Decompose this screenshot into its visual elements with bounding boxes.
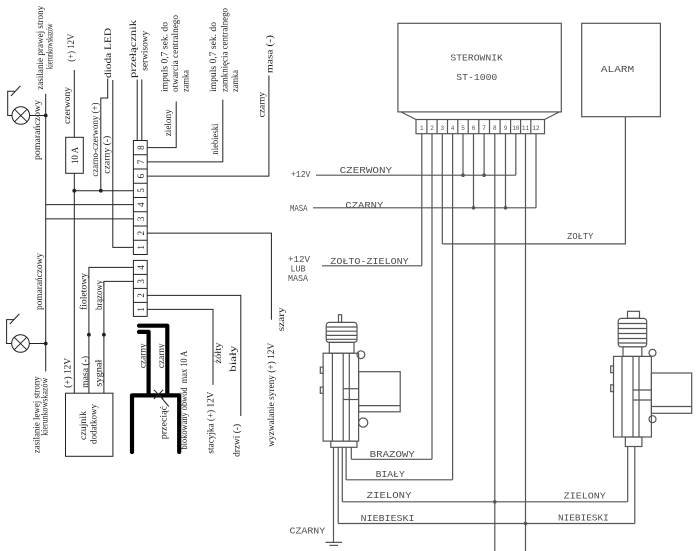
wire pin 2 szary <box>147 233 271 320</box>
wire +12V czerwony bus <box>316 174 516 176</box>
wire double cable to service switch <box>136 80 138 141</box>
wire LED czarny (-) to pin 1 block X1 <box>113 80 134 247</box>
node pin9 junction dot <box>504 206 508 210</box>
actuator M1 body <box>323 353 359 441</box>
svg-text:MASA: MASA <box>290 204 308 214</box>
svg-text:zamka: zamka <box>231 69 241 92</box>
wire pin 3 vertical <box>441 134 443 244</box>
svg-text:ZIELONY: ZIELONY <box>367 491 413 501</box>
wire niebieski actuator lead <box>337 447 339 523</box>
node A junction dot <box>44 114 48 118</box>
svg-text:12: 12 <box>532 125 540 132</box>
svg-text:impuls 0,7 sek. do: impuls 0,7 sek. do <box>161 22 171 92</box>
svg-text:MASA: MASA <box>288 274 309 284</box>
svg-text:2: 2 <box>430 125 434 132</box>
wire pin 12 vertical <box>535 134 537 208</box>
wire zielony bus M1 to M2 <box>342 501 627 503</box>
wire niebieski bus M1 to M2 <box>338 523 635 525</box>
svg-text:10: 10 <box>512 125 520 132</box>
wire zolto-zielony pin 1 <box>322 265 422 267</box>
svg-text:żółty: żółty <box>214 342 224 363</box>
actuator M2 motor block <box>651 373 691 413</box>
actuator M2 neck <box>623 347 642 357</box>
svg-text:drzwi (-): drzwi (-) <box>232 424 243 457</box>
svg-text:6: 6 <box>472 125 476 132</box>
svg-text:NIEBIESKI: NIEBIESKI <box>361 514 415 524</box>
wire pin 8 vertical <box>494 134 496 551</box>
actuator M2 bottom connector <box>625 437 642 447</box>
wire pin 7 vertical <box>483 134 485 176</box>
svg-text:STEROWNIK: STEROWNIK <box>450 53 503 64</box>
wire pin 11 vertical <box>525 134 527 551</box>
svg-text:czerwony: czerwony <box>63 87 73 124</box>
wire pin 1 X2 zolty <box>147 309 213 385</box>
connector strip X3 12-pin <box>416 120 545 134</box>
svg-text:CZERWONY: CZERWONY <box>340 166 393 176</box>
wire strip left joint <box>401 112 416 120</box>
svg-text:5: 5 <box>461 125 465 132</box>
svg-text:3: 3 <box>136 279 146 284</box>
svg-text:fioletowy: fioletowy <box>79 273 90 310</box>
wire pin 6 vertical <box>473 134 475 208</box>
svg-text:3: 3 <box>440 125 444 132</box>
svg-text:czarny (-): czarny (-) <box>102 136 113 174</box>
wire node D down to label <box>45 344 47 372</box>
wire zielony up to actuator M2 <box>627 447 629 502</box>
svg-text:+12V: +12V <box>291 170 311 180</box>
wire pin 4 to pomaranczowy <box>46 204 134 206</box>
node pin8 zielony junction dot <box>493 500 497 504</box>
actuator M2 right door lock <box>611 311 692 446</box>
node F junction dot brazowy <box>102 333 106 337</box>
wire pin 3 X2 brazowy to czujnik sygnal <box>104 281 133 393</box>
svg-text:1: 1 <box>420 125 424 132</box>
node B junction dot <box>72 189 76 193</box>
svg-text:CZARNY: CZARNY <box>345 201 384 211</box>
actuator M1 top tab circle <box>357 351 365 359</box>
svg-text:impuls 0,7 sek. do: impuls 0,7 sek. do <box>209 22 219 92</box>
wire pin 8 zielony <box>147 102 176 148</box>
svg-text:ST-1000: ST-1000 <box>456 72 497 83</box>
svg-text:6: 6 <box>136 173 146 178</box>
wire +12V czerwony down to fuse <box>73 70 75 137</box>
svg-text:masa (-): masa (-) <box>80 356 91 388</box>
wire niebieski up to actuator M2 <box>634 447 636 524</box>
svg-text:szary: szary <box>277 307 287 331</box>
wire brazowy actuator lead <box>350 447 352 459</box>
svg-text:przeciąć: przeciąć <box>160 406 170 439</box>
svg-text:ZIELONY: ZIELONY <box>564 491 607 501</box>
wire pin 9 vertical <box>505 134 507 208</box>
actuator M1 motor block <box>359 372 401 412</box>
svg-text:zamka: zamka <box>182 69 192 92</box>
wire fuse to node B <box>73 173 75 190</box>
node pin7 junction dot <box>482 173 486 177</box>
actuator M1 top pin <box>339 315 342 323</box>
wire pin 2 vertical <box>431 134 433 460</box>
svg-text:pomarańczowy: pomarańczowy <box>35 253 45 310</box>
svg-text:otwarcia centralnego: otwarcia centralnego <box>171 15 181 92</box>
actuator M2 ribbed cap <box>618 318 647 347</box>
svg-text:+12V: +12V <box>288 255 311 265</box>
cut mark X przeciac <box>154 390 169 407</box>
svg-text:czarny: czarny <box>258 92 268 118</box>
pin numbers block X1 <box>136 145 146 250</box>
wire masa czarny bus <box>313 207 536 209</box>
svg-text:9: 9 <box>504 125 508 132</box>
wire pin 5 vertical <box>462 134 464 176</box>
wire pin 10 vertical <box>515 134 517 176</box>
wire brazowy pin 2 to actuator M1 <box>351 458 432 460</box>
ground symbol <box>326 542 343 545</box>
wire LED czarno-czerwony (+) <box>101 79 108 191</box>
sterownik box U1 ST-1000 <box>398 23 561 112</box>
wire zolty pin 3 to alarm <box>442 117 625 244</box>
svg-text:kierunkowskazów: kierunkowskazów <box>41 378 51 436</box>
svg-text:brązowy: brązowy <box>95 280 105 310</box>
wire pin 7 niebieski <box>147 100 223 162</box>
wire bialy actuator lead <box>345 447 347 480</box>
svg-text:zamknięcia centralnego: zamknięcia centralnego <box>221 8 231 92</box>
svg-text:dioda LED: dioda LED <box>104 28 114 78</box>
wire node A up to label zasilanie prawej strony <box>45 94 47 116</box>
wire lamp L1 to node A <box>30 115 46 117</box>
svg-text:LUB: LUB <box>291 264 307 274</box>
svg-text:5: 5 <box>136 188 146 193</box>
svg-text:2: 2 <box>136 293 146 298</box>
thick wire czarny tap 1 <box>139 326 167 396</box>
svg-text:8: 8 <box>136 145 146 150</box>
actuator M2 body <box>614 356 652 437</box>
lamp L1 right-side turn signal <box>8 86 30 124</box>
wire lamp L2 to node D <box>29 343 45 345</box>
svg-text:czarno-czerwony (+): czarno-czerwony (+) <box>90 103 101 177</box>
thick wire czarny tap 2 <box>139 332 149 395</box>
svg-text:czujnik: czujnik <box>79 411 89 440</box>
svg-text:BRAZOWY: BRAZOWY <box>370 450 416 460</box>
svg-text:NIEBIESKI: NIEBIESKI <box>558 514 609 524</box>
wire +12V down to czujnik dodatkowy <box>73 191 75 394</box>
wire pin 6 masa czarny <box>147 76 269 177</box>
actuator M1 bottom tab circle <box>359 418 368 427</box>
svg-text:4: 4 <box>451 125 455 132</box>
node pin6 junction dot <box>472 206 476 210</box>
connector block X1 8-pin <box>133 141 147 255</box>
svg-text:2: 2 <box>136 231 146 236</box>
actuator M2 bottom tab circle <box>649 416 656 423</box>
svg-text:7: 7 <box>136 159 146 164</box>
svg-text:11: 11 <box>522 125 530 132</box>
svg-text:czarny: czarny <box>138 343 148 368</box>
actuator M1 left tabs <box>320 367 323 373</box>
svg-text:zasilanie prawej strony: zasilanie prawej strony <box>36 6 46 90</box>
lamp L2 left-side turn signal <box>7 314 30 352</box>
svg-text:wyzwalanie syreny (+) 12V: wyzwalanie syreny (+) 12V <box>266 343 277 447</box>
wire pin 4 X2 fioletowy to czujnik masa <box>89 267 133 393</box>
wire zielony actuator lead <box>341 447 343 502</box>
actuator M2 left tabs <box>611 366 614 373</box>
actuator M1 bottom connector <box>331 441 357 447</box>
svg-text:czarny: czarny <box>157 343 167 368</box>
thick wire blocked circuit U loop <box>132 395 179 452</box>
node pin5 junction dot <box>461 173 465 177</box>
svg-text:8: 8 <box>493 125 497 132</box>
svg-text:4: 4 <box>136 202 146 207</box>
actuator M2 top knob <box>628 311 640 318</box>
svg-text:4: 4 <box>136 265 146 270</box>
wire pin 2 X2 bialy <box>147 295 241 416</box>
svg-text:10 A: 10 A <box>71 147 81 164</box>
svg-text:BIAŁY: BIAŁY <box>376 470 406 480</box>
svg-text:1: 1 <box>136 245 146 250</box>
alarm box U3 <box>582 23 661 116</box>
wire pin 1 vertical <box>421 134 423 266</box>
svg-text:(+) 12V: (+) 12V <box>63 358 74 388</box>
actuator M1 ribbed cap <box>326 322 357 342</box>
svg-text:biały: biały <box>229 345 239 371</box>
svg-text:ALARM: ALARM <box>601 64 635 75</box>
pin numbers block X2 <box>136 265 146 312</box>
wire pin 4 vertical <box>452 134 454 480</box>
wire pomaranczowy vertical lamp1 to lamp2 <box>45 116 47 344</box>
czujnik dodatkowy box U2 <box>66 393 113 456</box>
svg-text:1: 1 <box>136 307 146 312</box>
svg-text:stacyjka (+) 12V: stacyjka (+) 12V <box>206 391 217 453</box>
wire bialy pin 4 to actuator M1 <box>346 479 453 481</box>
svg-text:zielony: zielony <box>164 109 174 136</box>
wire czarny M1 to ground <box>333 447 335 542</box>
svg-text:(+) 12V: (+) 12V <box>66 34 77 62</box>
wire +12V to pin 5 block X1 <box>74 190 133 192</box>
node pin11 niebieski junction dot <box>524 522 528 526</box>
svg-text:przełącznik: przełącznik <box>129 20 139 78</box>
svg-text:7: 7 <box>482 125 486 132</box>
svg-text:sygnał: sygnał <box>95 359 105 386</box>
svg-text:dodatkowy: dodatkowy <box>90 404 100 444</box>
actuator M2 top tab circle <box>649 349 656 356</box>
svg-text:ZOŁTY: ZOŁTY <box>567 232 594 242</box>
node E junction dot fioletowy <box>87 333 91 337</box>
wire strip right joint <box>545 112 560 120</box>
connector block X2 4-pin <box>133 260 147 316</box>
svg-text:serwisowy: serwisowy <box>141 31 151 71</box>
svg-text:blokowany obwód max 10 A: blokowany obwód max 10 A <box>180 351 190 450</box>
fuse F1 10A <box>66 137 84 173</box>
svg-text:ZOŁTO-ZIELONY: ZOŁTO-ZIELONY <box>330 257 409 267</box>
svg-text:masa (-): masa (-) <box>265 35 276 73</box>
actuator M1 left door lock <box>320 315 400 448</box>
svg-text:3: 3 <box>136 216 146 221</box>
node D junction dot <box>44 342 48 346</box>
actuator M1 neck <box>329 342 354 353</box>
svg-text:niebieski: niebieski <box>211 123 221 154</box>
svg-text:kierunkowskazów: kierunkowskazów <box>46 23 56 69</box>
svg-text:CZARNY: CZARNY <box>290 526 326 536</box>
wire pin 3 to pomaranczowy <box>46 218 134 220</box>
svg-text:pomarańczowy: pomarańczowy <box>33 100 43 160</box>
node C junction dot czarno-czerwony <box>99 189 103 193</box>
